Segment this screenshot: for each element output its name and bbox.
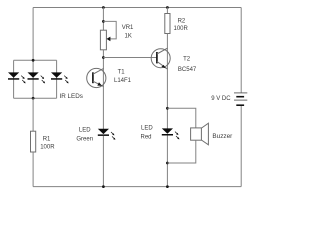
svg-text:100R: 100R [174,26,189,32]
svg-text:T1: T1 [118,70,126,76]
LED D1 IR left [8,72,26,83]
wire R2 top stub [166,8,168,14]
node dot top rail col B [166,6,169,9]
wire IR block top [14,59,57,61]
node junction IR top [32,59,35,62]
resistor R1 [31,131,36,152]
svg-text:Buzzer: Buzzer [212,133,233,140]
svg-text:9 V DC: 9 V DC [211,96,231,102]
svg-text:LED: LED [141,126,153,132]
svg-text:VR1: VR1 [122,25,134,31]
node dot buzzer branch bottom [166,162,169,165]
svg-text:IR LEDs: IR LEDs [60,93,83,100]
node junction IR bottom [32,97,35,100]
svg-text:Green: Green [76,137,93,143]
buzzer LS1 [191,123,209,145]
potentiometer VR1 [100,21,116,49]
LED green [98,129,116,140]
wire top rail [33,7,241,9]
svg-text:T2: T2 [183,56,191,62]
node dot VR1 wiper tap [102,20,105,23]
wire left rail upper [32,8,34,61]
wire VR1 top [102,8,104,31]
LED red [162,128,180,139]
LED D2 IR middle [28,72,46,83]
battery BT1 9V [234,93,247,105]
wire R1 bottom [32,152,34,187]
wire IR block bottom [14,97,57,99]
phototransistor T1 L14F1 [87,68,106,87]
wire buzzer branch top [167,108,195,128]
svg-text:BC547: BC547 [178,67,197,73]
wire IR branch middle [32,60,34,98]
svg-text:100R: 100R [40,144,55,150]
wire right rail lower [240,105,242,186]
node dot bottom rail col B [166,185,169,188]
wire IR branch left [13,60,15,98]
node dot bottom rail col A [102,185,105,188]
node dot top rail col A [102,6,105,9]
node dot buzzer branch top [166,107,169,110]
resistor R2 [165,14,170,34]
wire T2 column [166,34,168,130]
svg-text:L14F1: L14F1 [114,78,132,84]
svg-text:LED: LED [79,128,91,134]
svg-text:R2: R2 [178,19,186,25]
wire VR1 bottom / T1 column [102,50,104,129]
node dot base tap [102,56,105,59]
LED D3 IR right [51,72,69,83]
wire LED green to bottom rail [102,136,104,187]
transistor T2 BC547 [151,48,170,69]
svg-text:Red: Red [141,135,152,141]
svg-text:R1: R1 [43,136,51,142]
wire buzzer branch bottom [167,140,195,163]
svg-text:1K: 1K [125,33,132,39]
wire R1 top [32,98,34,131]
wire right rail upper [240,8,242,93]
wire LED red to bottom rail [166,136,168,187]
wire base of T2 [103,57,156,59]
wire IR branch right [56,60,58,98]
wire bottom rail [33,186,241,188]
